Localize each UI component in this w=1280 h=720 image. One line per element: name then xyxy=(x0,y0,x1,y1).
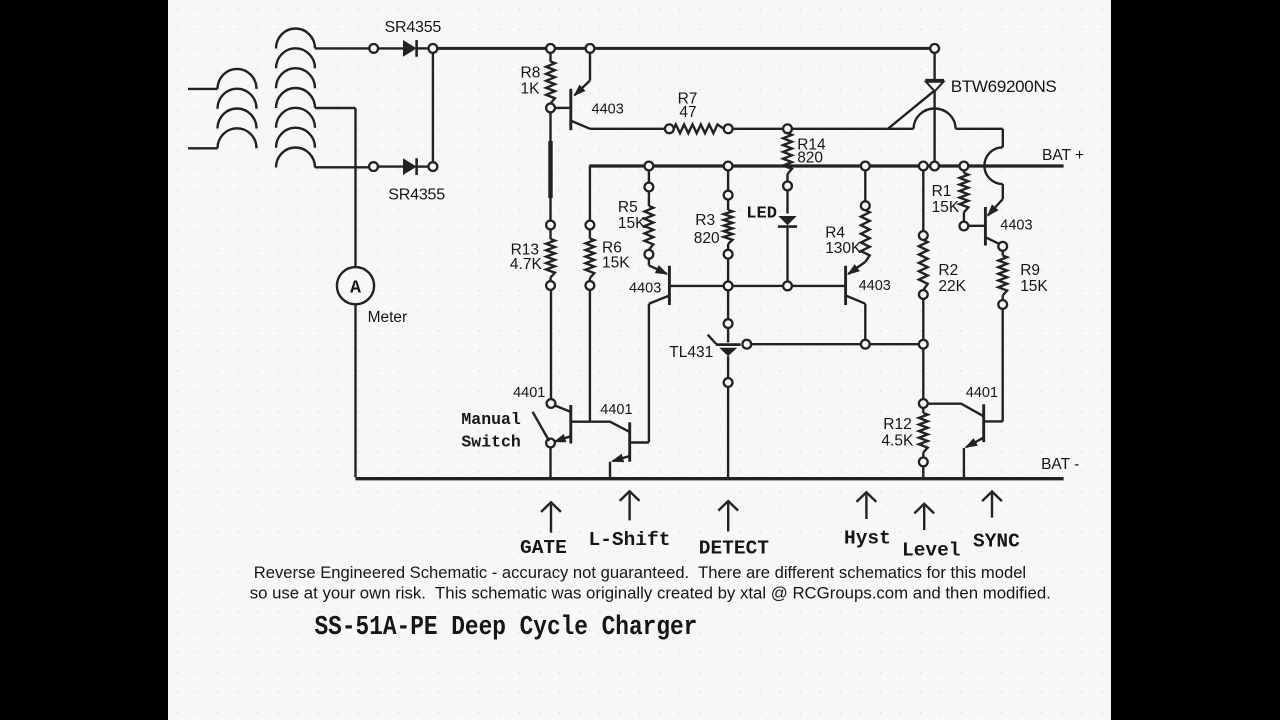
svg-text:SR4355: SR4355 xyxy=(385,19,442,36)
svg-text:Level: Level xyxy=(902,539,961,561)
svg-text:4.7K: 4.7K xyxy=(510,256,543,273)
svg-text:GATE: GATE xyxy=(520,537,567,559)
svg-text:Hyst: Hyst xyxy=(844,528,891,550)
svg-text:R5: R5 xyxy=(618,199,638,216)
svg-text:BAT -: BAT - xyxy=(1041,456,1079,473)
svg-text:BTW69200NS: BTW69200NS xyxy=(951,77,1057,96)
svg-text:R9: R9 xyxy=(1020,262,1040,279)
svg-text:4.5K: 4.5K xyxy=(881,433,914,450)
svg-text:SS-51A-PE Deep Cycle Charger: SS-51A-PE Deep Cycle Charger xyxy=(315,612,698,642)
svg-text:R12: R12 xyxy=(883,416,911,433)
svg-text:Switch: Switch xyxy=(461,432,520,451)
svg-text:R1: R1 xyxy=(932,183,952,200)
svg-text:15K: 15K xyxy=(602,255,630,272)
svg-text:SYNC: SYNC xyxy=(973,530,1020,552)
svg-text:Manual: Manual xyxy=(461,410,521,429)
svg-text:15K: 15K xyxy=(1020,278,1048,295)
svg-text:4403: 4403 xyxy=(859,278,891,294)
svg-text:1K: 1K xyxy=(521,81,541,98)
svg-text:A: A xyxy=(350,278,361,298)
svg-text:R3: R3 xyxy=(695,212,715,229)
svg-text:4403: 4403 xyxy=(629,280,661,296)
svg-text:L-Shift: L-Shift xyxy=(589,529,671,551)
svg-text:R8: R8 xyxy=(521,65,541,82)
svg-text:130K: 130K xyxy=(825,240,862,257)
svg-text:LED: LED xyxy=(746,205,777,224)
svg-text:TL431: TL431 xyxy=(669,344,713,361)
svg-text:15K: 15K xyxy=(932,199,960,216)
svg-text:820: 820 xyxy=(694,230,720,247)
svg-text:47: 47 xyxy=(679,104,696,121)
svg-text:R4: R4 xyxy=(825,224,845,241)
svg-text:4401: 4401 xyxy=(966,385,998,401)
svg-text:4403: 4403 xyxy=(1000,218,1032,234)
svg-text:so use at your own risk. This: so use at your own risk. This schematic … xyxy=(250,584,1051,603)
svg-text:22K: 22K xyxy=(938,278,966,295)
svg-text:15K: 15K xyxy=(618,215,646,232)
svg-text:SR4355: SR4355 xyxy=(388,186,445,203)
svg-text:DETECT: DETECT xyxy=(699,538,770,560)
svg-text:Reverse Engineered Schematic -: Reverse Engineered Schematic - accuracy … xyxy=(254,563,1026,582)
svg-text:4403: 4403 xyxy=(592,101,624,117)
svg-text:Meter: Meter xyxy=(368,309,408,326)
svg-text:820: 820 xyxy=(797,149,823,166)
svg-text:4401: 4401 xyxy=(600,402,632,418)
svg-text:4401: 4401 xyxy=(513,385,545,401)
svg-text:R2: R2 xyxy=(938,262,958,279)
svg-text:BAT +: BAT + xyxy=(1042,147,1084,164)
